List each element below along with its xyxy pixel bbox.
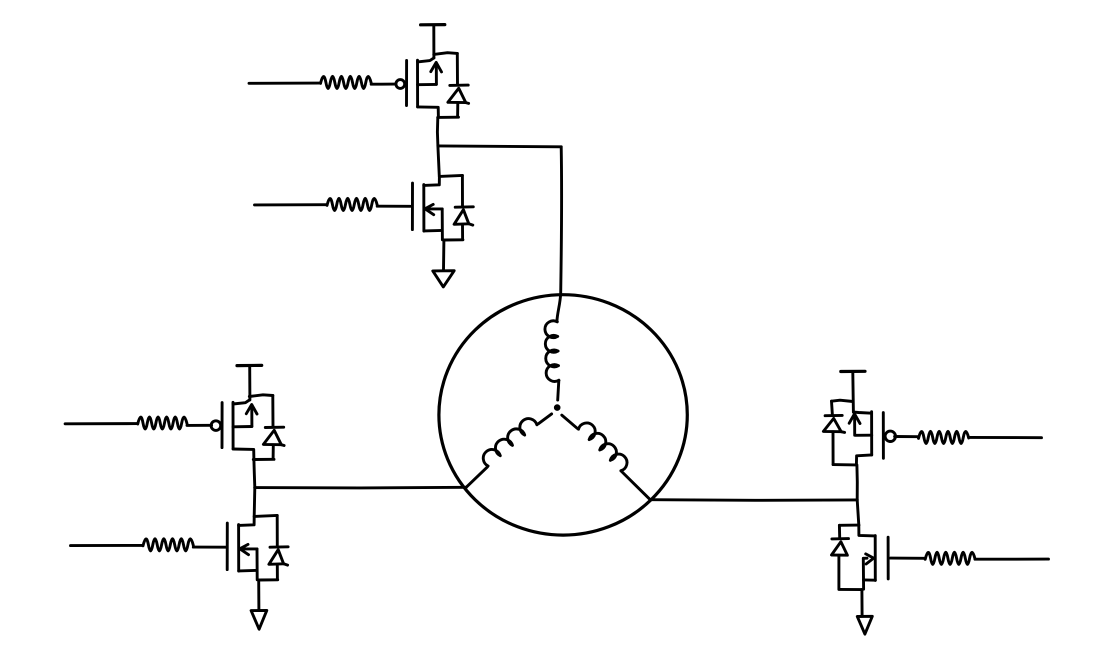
diode D3 (Q3 body diode): [263, 396, 284, 460]
wire Q2 source to ground: [442, 240, 445, 270]
ground (phase C bridge): [857, 616, 872, 634]
wire Q4 source to ground: [257, 580, 260, 611]
resistor R5 (Q5 gate): [919, 431, 969, 443]
node: star point (neutral): [554, 405, 560, 411]
transistor Q4 (N-channel MOSFET, low side phase B): [227, 515, 278, 580]
wire R1 to Q1 gate bubble: [371, 83, 396, 86]
wire gate input B-high: [65, 422, 138, 425]
node B / wire to motor phase B: [255, 486, 466, 490]
wire node B to Q4 drain: [253, 488, 257, 517]
wire R2 to Q2 gate: [377, 205, 410, 208]
node C / wire to motor phase C: [650, 498, 857, 501]
wire gate input A-high: [249, 82, 321, 85]
resistor R2 (Q2 gate): [327, 198, 377, 210]
wire VCC to Q3 drain: [248, 366, 251, 400]
wire gate input B-low: [71, 544, 144, 547]
motor M1 (stator circle): [439, 295, 687, 535]
wire star point to winding C: [562, 415, 577, 428]
wire winding C to phase C terminal: [621, 471, 650, 500]
wire node C to Q6 drain: [857, 500, 859, 525]
resistor R4 (Q4 gate): [143, 539, 193, 551]
node A / wire to motor phase A: [438, 144, 561, 148]
wire Q6 source to ground: [860, 590, 863, 617]
transistor Q5 (P-channel MOSFET, high side phase C): [832, 400, 896, 465]
wire R4 to Q4 gate: [193, 546, 226, 549]
resistor R1 (Q1 gate): [321, 76, 372, 88]
wire gate input A-low: [255, 203, 328, 206]
ground (phase A bridge): [433, 271, 454, 287]
wire Q6 gate to R6: [891, 557, 926, 560]
ground (phase B bridge): [251, 610, 267, 629]
wire VCC to Q1 drain: [432, 25, 435, 58]
wire star point to winding B: [538, 414, 551, 424]
wire winding A to star point: [558, 381, 559, 401]
wire node A to Q2 drain: [438, 146, 439, 176]
wire Q3 source to phase B node: [252, 459, 256, 487]
resistor R3 (Q3 gate): [138, 417, 187, 429]
wire gate input C-high: [969, 436, 1042, 439]
wire winding B to phase B terminal: [466, 467, 487, 487]
diode D5 (Q5 body diode): [823, 401, 844, 464]
supply bar VCC (phase C half-bridge): [841, 370, 865, 373]
wire gate input C-low: [975, 558, 1049, 561]
wire Q5 gate bubble to R5: [895, 435, 919, 438]
transistor Q6 (N-channel MOSFET, low side phase C): [839, 525, 888, 590]
diode D2 (Q2 body diode): [454, 175, 473, 239]
wire Q1 source to phase A node: [436, 117, 439, 146]
winding LB (phase B coil): [483, 419, 537, 466]
transistor Q1 (P-channel MOSFET, high side phase A): [396, 53, 459, 118]
diode D6 (Q6 body diode): [832, 525, 849, 589]
winding LA (phase A coil): [545, 321, 559, 382]
supply bar VCC (phase A half-bridge): [421, 23, 445, 26]
transistor Q2 (N-channel MOSFET, low side phase A): [412, 175, 463, 240]
resistor R6 (Q6 gate): [925, 552, 975, 564]
transistor Q3 (P-channel MOSFET, high side phase B): [211, 395, 274, 460]
winding LC (phase C coil): [579, 423, 627, 471]
supply bar VCC (phase B half-bridge): [237, 364, 262, 367]
diode D4 (Q4 body diode): [269, 515, 288, 579]
wire R3 to Q3 gate bubble: [187, 424, 212, 427]
wire phase A down to motor winding: [557, 147, 562, 322]
wire Q5 source to phase C node: [855, 465, 858, 500]
wire VCC to Q5 drain: [851, 372, 855, 412]
diode D1 (Q1 body diode): [448, 53, 469, 117]
